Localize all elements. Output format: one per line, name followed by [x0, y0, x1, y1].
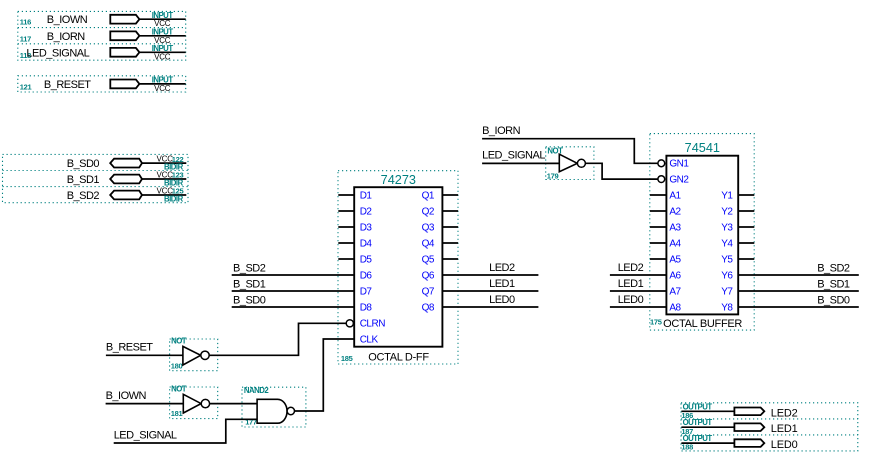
svg-text:Y8: Y8: [721, 302, 733, 313]
svg-text:B_IOWN: B_IOWN: [106, 390, 147, 402]
svg-text:BIDIR: BIDIR: [164, 195, 184, 204]
svg-text:Q5: Q5: [422, 254, 435, 265]
svg-text:D7: D7: [360, 286, 373, 297]
wire Q7 net LED1: [442, 278, 538, 291]
svg-text:LED0: LED0: [771, 439, 798, 451]
wire net LED2 to A6: [610, 262, 667, 275]
svg-text:LED2: LED2: [771, 407, 798, 419]
svg-text:B_SD2: B_SD2: [67, 190, 100, 202]
selection box input pins group: [18, 11, 186, 92]
svg-text:OCTAL D-FF: OCTAL D-FF: [368, 351, 429, 363]
svg-text:Q1: Q1: [422, 190, 435, 201]
svg-text:Y4: Y4: [721, 238, 733, 249]
svg-text:180: 180: [171, 361, 183, 370]
svg-text:GN2: GN2: [669, 175, 689, 186]
svg-text:LED_SIGNAL: LED_SIGNAL: [26, 47, 89, 59]
wire Q8 net LED0: [442, 294, 538, 307]
NOT gate 181: [170, 384, 218, 418]
svg-text:179: 179: [547, 171, 559, 180]
input pin 118 LED_SIGNAL: [20, 44, 186, 61]
svg-text:LED1: LED1: [618, 278, 644, 290]
svg-text:185: 185: [341, 354, 353, 363]
svg-text:LED2: LED2: [489, 262, 515, 274]
wire B_IORN to GN1: [482, 125, 658, 163]
svg-text:A4: A4: [669, 238, 681, 249]
svg-text:LED1: LED1: [489, 278, 515, 290]
wire B_SD2 to D6: [232, 262, 355, 275]
svg-text:Q7: Q7: [422, 286, 435, 297]
svg-text:D8: D8: [360, 302, 373, 313]
wire LED_SIGNAL to NAND 177: [114, 419, 257, 443]
wire NOT 181 out to NAND 177: [210, 403, 258, 405]
svg-text:B_IORN: B_IORN: [482, 125, 521, 137]
svg-text:Y1: Y1: [721, 190, 733, 201]
wire Q6 net LED2: [442, 262, 538, 275]
wire B_IOWN to NOT 181: [106, 390, 184, 404]
svg-text:Y5: Y5: [721, 254, 733, 265]
svg-text:Y6: Y6: [721, 270, 733, 281]
svg-text:188: 188: [681, 443, 693, 452]
svg-text:B_SD1: B_SD1: [817, 278, 850, 290]
bidir pin 123 B_SD1: [67, 171, 187, 188]
svg-text:Q6: Q6: [422, 270, 435, 281]
input pin 121 B_RESET: [20, 76, 186, 93]
svg-text:B_SD0: B_SD0: [67, 158, 100, 170]
svg-text:LED_SIGNAL: LED_SIGNAL: [114, 429, 177, 441]
svg-text:LED_SIGNAL: LED_SIGNAL: [482, 150, 545, 162]
input pin 117 B_IORN: [20, 27, 186, 44]
svg-text:B_SD1: B_SD1: [67, 174, 100, 186]
svg-text:B_RESET: B_RESET: [106, 342, 153, 354]
svg-text:B_SD0: B_SD0: [233, 294, 266, 306]
IC 185 74273 octal D-FF: [338, 171, 458, 364]
svg-text:74273: 74273: [381, 173, 416, 187]
svg-text:Q3: Q3: [422, 222, 435, 233]
svg-text:LED0: LED0: [618, 294, 644, 306]
svg-text:D5: D5: [360, 254, 373, 265]
selection box output pins group: [681, 403, 858, 451]
wire net LED1 to A7: [610, 278, 667, 291]
svg-text:181: 181: [171, 409, 183, 418]
svg-text:CLRN: CLRN: [360, 319, 386, 330]
svg-text:NAND2: NAND2: [244, 386, 270, 395]
svg-text:D2: D2: [360, 206, 373, 217]
svg-text:LED2: LED2: [618, 262, 644, 274]
svg-text:D6: D6: [360, 270, 373, 281]
wire B_SD0 to D8: [232, 294, 355, 307]
svg-text:OCTAL BUFFER: OCTAL BUFFER: [663, 318, 742, 330]
svg-text:175: 175: [650, 317, 662, 326]
svg-text:A3: A3: [669, 222, 681, 233]
bidir pin 122 B_SD0: [67, 155, 187, 172]
wire Y7 net B_SD1: [738, 278, 859, 291]
output pin 187 LED1: [681, 418, 797, 436]
selection box bidir pins group: [3, 154, 189, 202]
input pin 116 B_IOWN: [20, 11, 186, 28]
svg-text:B_IORN: B_IORN: [47, 31, 86, 43]
svg-text:Y7: Y7: [721, 286, 733, 297]
svg-text:D4: D4: [360, 238, 373, 249]
svg-text:NOT: NOT: [171, 337, 187, 346]
svg-text:LED1: LED1: [771, 423, 798, 435]
svg-text:A7: A7: [669, 286, 681, 297]
wire LED_SIGNAL to NOT 179: [482, 150, 559, 164]
wire NOT 180 out to CLRN: [209, 323, 346, 355]
svg-text:D3: D3: [360, 222, 373, 233]
svg-text:D1: D1: [360, 190, 373, 201]
wire B_SD1 to D7: [232, 278, 355, 291]
svg-text:A8: A8: [669, 302, 681, 313]
NOT gate 179: [546, 147, 594, 181]
svg-text:A2: A2: [669, 206, 681, 217]
svg-text:A1: A1: [669, 190, 681, 201]
svg-text:B_RESET: B_RESET: [44, 79, 91, 91]
svg-text:B_SD1: B_SD1: [233, 278, 266, 290]
NAND2 gate 177: [242, 386, 306, 427]
NOT gate 180: [170, 337, 218, 371]
svg-text:A5: A5: [669, 254, 681, 265]
wire NAND 177 out to CLK: [295, 339, 355, 411]
svg-text:Y2: Y2: [721, 206, 733, 217]
svg-text:GN1: GN1: [669, 159, 689, 170]
bidir pin 125 B_SD2: [67, 187, 187, 204]
svg-text:74541: 74541: [685, 141, 720, 155]
svg-text:Q2: Q2: [422, 206, 435, 217]
svg-text:116: 116: [20, 18, 31, 27]
wire Y6 net B_SD2: [738, 262, 859, 275]
wire Y8 net B_SD0: [738, 294, 859, 307]
svg-text:VCC: VCC: [154, 84, 171, 93]
svg-text:VCC: VCC: [154, 52, 171, 61]
svg-text:Y3: Y3: [721, 222, 733, 233]
svg-text:B_SD0: B_SD0: [817, 294, 850, 306]
wire B_RESET to NOT 180: [106, 342, 183, 356]
output pin 188 LED0: [681, 434, 797, 452]
svg-text:117: 117: [20, 34, 31, 43]
wire net LED0 to A8: [610, 294, 667, 307]
svg-text:B_SD2: B_SD2: [233, 262, 266, 274]
svg-text:B_IOWN: B_IOWN: [47, 14, 88, 26]
svg-text:Q4: Q4: [422, 238, 435, 249]
svg-text:NOT: NOT: [171, 384, 187, 393]
svg-text:Q8: Q8: [422, 302, 435, 313]
svg-text:121: 121: [20, 82, 32, 91]
svg-text:B_SD2: B_SD2: [817, 262, 850, 274]
svg-text:A6: A6: [669, 270, 681, 281]
IC 175 74541 octal buffer: [650, 134, 755, 331]
wire NOT 179 out to GN2: [586, 163, 658, 179]
svg-text:CLK: CLK: [360, 335, 379, 346]
output pin 186 LED2: [681, 402, 797, 420]
svg-text:LED0: LED0: [489, 294, 515, 306]
